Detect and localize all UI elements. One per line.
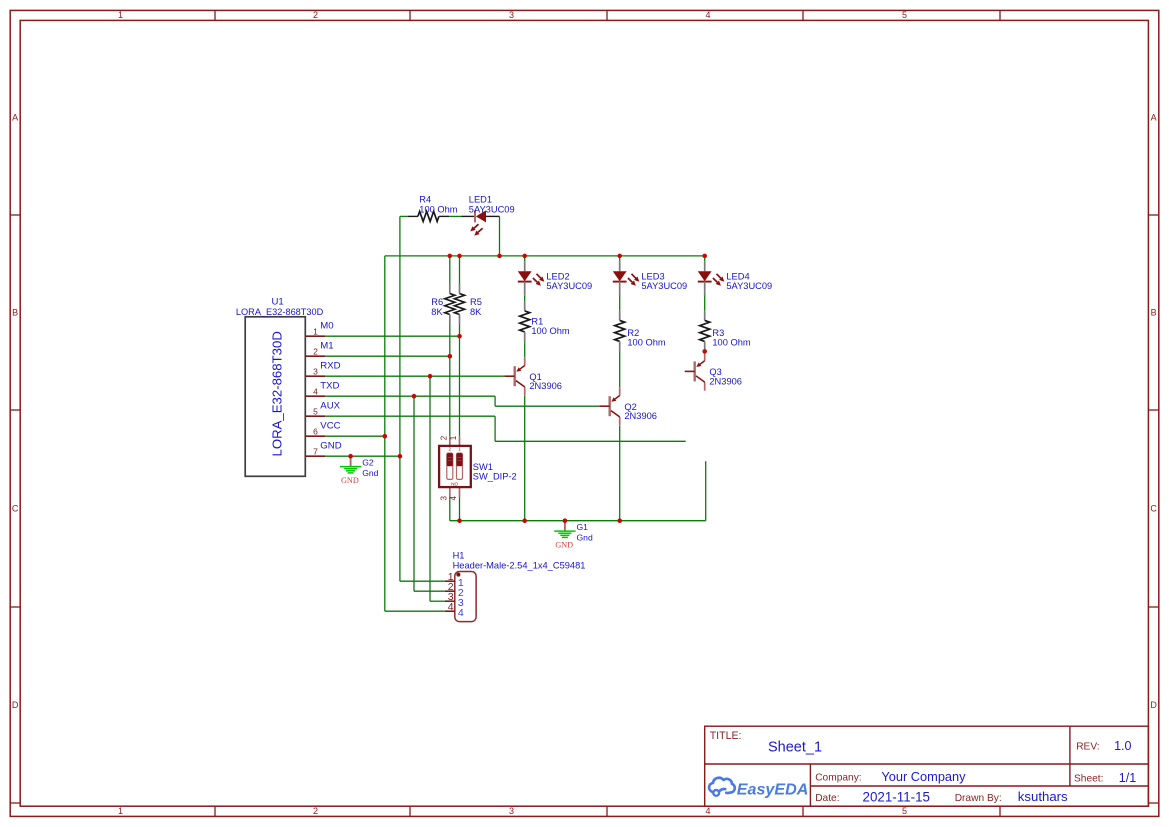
svg-text:7: 7 bbox=[313, 447, 318, 457]
transistor Q1 2N3906 bbox=[514, 366, 516, 386]
U1 pin 7 GND bbox=[305, 455, 325, 457]
svg-text:2021-11-15: 2021-11-15 bbox=[863, 790, 931, 805]
svg-text:1: 1 bbox=[118, 10, 123, 20]
svg-text:ksuthars: ksuthars bbox=[1018, 789, 1068, 804]
svg-text:5: 5 bbox=[313, 407, 318, 417]
wire LED1 cathode down to rail bbox=[499, 216, 501, 256]
resistor R4 100 Ohm bbox=[408, 215, 418, 217]
wire M0 (U1 pin1 to R5/SW1) bbox=[325, 335, 459, 337]
wire R6 column / SW1 pin2 bbox=[449, 256, 451, 284]
U1 pin 1 M0 bbox=[305, 335, 325, 337]
svg-text:2: 2 bbox=[440, 435, 449, 440]
svg-text:SW_DIP-2: SW_DIP-2 bbox=[473, 472, 517, 482]
svg-text:4: 4 bbox=[313, 387, 318, 397]
wire VCC vertical to H1 pin4 bbox=[384, 256, 386, 611]
svg-text:2N3906: 2N3906 bbox=[624, 411, 657, 421]
svg-text:3: 3 bbox=[509, 806, 514, 816]
svg-text:G2: G2 bbox=[362, 457, 374, 467]
svg-text:Q3: Q3 bbox=[709, 367, 721, 377]
junction at (399.9,456.2) bbox=[398, 454, 403, 459]
wire RXD vertical to H1 pin3 bbox=[429, 376, 431, 601]
junction at (459.5,520.7) bbox=[457, 518, 462, 523]
junction at (564.9,520.7) bbox=[563, 518, 568, 523]
svg-text:GND: GND bbox=[341, 476, 359, 485]
svg-text:2N3906: 2N3906 bbox=[529, 381, 562, 391]
svg-text:3: 3 bbox=[313, 367, 318, 377]
svg-text:3: 3 bbox=[440, 496, 449, 501]
junction at (704.7,351.4) bbox=[702, 349, 707, 354]
H1 pin 4 bbox=[445, 610, 455, 612]
svg-text:4: 4 bbox=[458, 607, 464, 619]
svg-text:2: 2 bbox=[313, 806, 318, 816]
svg-text:ON: ON bbox=[451, 482, 458, 487]
svg-text:G1: G1 bbox=[577, 522, 589, 532]
svg-text:R1: R1 bbox=[531, 317, 543, 327]
svg-text:8K: 8K bbox=[470, 307, 482, 317]
H1 pin 1 bbox=[445, 580, 455, 582]
wire TXD (U1 pin4 to Q2 base) bbox=[325, 395, 495, 397]
chip U1 LORA_E32-868T30D bbox=[245, 317, 305, 477]
junction at (449.8,356.2) bbox=[448, 354, 453, 359]
svg-text:AUX: AUX bbox=[320, 401, 340, 412]
svg-text:H1: H1 bbox=[453, 551, 465, 561]
svg-text:5AY3UC09: 5AY3UC09 bbox=[469, 204, 515, 214]
wire TXD vertical to H1 pin2 bbox=[413, 396, 415, 591]
svg-text:RXD: RXD bbox=[320, 361, 340, 372]
junction at (524.7,255.9) bbox=[522, 254, 527, 259]
svg-text:B: B bbox=[1151, 308, 1157, 318]
wire LED4 / R3 column bbox=[704, 256, 706, 261]
svg-text:5: 5 bbox=[902, 806, 907, 816]
title block bbox=[705, 726, 1149, 806]
svg-text:Drawn By:: Drawn By: bbox=[955, 793, 1002, 804]
svg-text:Header-Male-2.54_1x4_C59481: Header-Male-2.54_1x4_C59481 bbox=[453, 561, 586, 571]
wire GND rail riser right (dangling) bbox=[705, 461, 707, 521]
svg-text:M1: M1 bbox=[320, 341, 333, 352]
LED LED1 5AY3UC09 bbox=[462, 215, 475, 217]
svg-text:Sheet:: Sheet: bbox=[1074, 774, 1103, 785]
LED LED4 5AY3UC09 bbox=[704, 261, 706, 271]
EasyEDA logo bbox=[709, 778, 735, 793]
svg-text:VCC: VCC bbox=[320, 421, 340, 432]
svg-text:1: 1 bbox=[458, 447, 461, 452]
svg-text:C: C bbox=[1150, 504, 1157, 514]
svg-text:2: 2 bbox=[313, 347, 318, 357]
svg-text:5AY3UC09: 5AY3UC09 bbox=[726, 281, 772, 291]
svg-text:2N3906: 2N3906 bbox=[709, 376, 742, 386]
junction at (704.7,255.9) bbox=[702, 254, 707, 259]
svg-text:5: 5 bbox=[902, 10, 907, 20]
svg-text:3: 3 bbox=[509, 10, 514, 20]
svg-text:TXD: TXD bbox=[320, 381, 339, 392]
LED LED2 5AY3UC09 bbox=[524, 261, 526, 271]
wire AUX (U1 pin5, dangling near Q3) bbox=[325, 415, 495, 417]
svg-text:Your Company: Your Company bbox=[881, 769, 966, 784]
wire GND rail bottom bbox=[450, 520, 706, 522]
svg-text:1: 1 bbox=[449, 435, 458, 440]
junction at (449.8,255.9) bbox=[448, 254, 453, 259]
resistor R1 100 Ohm bbox=[524, 302, 526, 311]
svg-text:U1: U1 bbox=[271, 296, 283, 307]
svg-text:GND: GND bbox=[555, 540, 573, 549]
svg-text:Gnd: Gnd bbox=[577, 532, 593, 542]
svg-text:Company:: Company: bbox=[815, 773, 861, 784]
svg-text:A: A bbox=[12, 113, 18, 123]
svg-text:1: 1 bbox=[118, 806, 123, 816]
U1 pin 4 TXD bbox=[305, 395, 325, 397]
svg-text:1/1: 1/1 bbox=[1119, 771, 1136, 785]
svg-text:1.0: 1.0 bbox=[1114, 739, 1131, 753]
ground G2 Gnd bbox=[350, 456, 352, 466]
svg-text:5AY3UC09: 5AY3UC09 bbox=[641, 281, 687, 291]
svg-text:R5: R5 bbox=[470, 297, 482, 307]
wire LED2 / R1 / Q1 column bbox=[524, 256, 526, 261]
svg-text:5AY3UC09: 5AY3UC09 bbox=[546, 281, 592, 291]
junction at (499.5,255.9) bbox=[497, 254, 502, 259]
svg-text:A: A bbox=[1151, 113, 1157, 123]
svg-text:LORA_E32-868T30D: LORA_E32-868T30D bbox=[270, 331, 285, 456]
junction at (619.7,255.9) bbox=[617, 254, 622, 259]
H1 pin 3 bbox=[445, 600, 455, 602]
U1 pin 5 AUX bbox=[305, 415, 325, 417]
svg-text:100 Ohm: 100 Ohm bbox=[419, 204, 457, 214]
wire R5 column / SW1 pin1 bbox=[459, 256, 461, 284]
svg-text:4: 4 bbox=[448, 601, 454, 613]
U1 pin 6 VCC bbox=[305, 435, 325, 437]
svg-text:GND: GND bbox=[320, 441, 341, 452]
wire LED3 / R2 / Q2 column bbox=[619, 256, 621, 261]
resistor R3 100 Ohm bbox=[704, 311, 706, 321]
svg-text:D: D bbox=[1150, 700, 1157, 710]
U1 pin 2 M1 bbox=[305, 355, 325, 357]
resistor R2 100 Ohm bbox=[619, 311, 621, 321]
junction at (459.5,336.2) bbox=[457, 334, 462, 339]
svg-text:4: 4 bbox=[705, 806, 710, 816]
resistor R5 8K bbox=[459, 284, 461, 294]
svg-text:100 Ohm: 100 Ohm bbox=[712, 337, 750, 347]
header H1 Header-Male-2.54_1x4_C59481 bbox=[455, 572, 476, 622]
H1 pin 2 bbox=[445, 590, 455, 592]
svg-text:LORA_E32-868T30D: LORA_E32-868T30D bbox=[236, 307, 324, 317]
svg-text:Gnd: Gnd bbox=[362, 468, 378, 478]
svg-text:Sheet_1: Sheet_1 bbox=[768, 740, 822, 756]
junction at (414,396.2) bbox=[412, 394, 417, 399]
svg-text:D: D bbox=[12, 700, 19, 710]
svg-text:4: 4 bbox=[705, 10, 710, 20]
svg-text:6: 6 bbox=[313, 427, 318, 437]
svg-text:4: 4 bbox=[449, 496, 458, 501]
wire M1 (U1 pin2 to R6/SW1) bbox=[325, 355, 450, 357]
svg-text:100 Ohm: 100 Ohm bbox=[531, 326, 569, 336]
resistor R6 8K bbox=[449, 284, 451, 294]
svg-text:2: 2 bbox=[313, 10, 318, 20]
svg-text:LED1: LED1 bbox=[469, 194, 492, 204]
wire R4 anode side bbox=[400, 215, 408, 217]
switch SW1 SW_DIP-2 bbox=[449, 436, 451, 446]
ground G1 Gnd bbox=[564, 521, 566, 531]
junction at (350.6,456.2) bbox=[348, 454, 353, 459]
wire R4 to LED1 bbox=[449, 215, 461, 217]
svg-text:Date:: Date: bbox=[815, 793, 839, 804]
svg-text:EasyEDA: EasyEDA bbox=[737, 781, 809, 799]
svg-text:R4: R4 bbox=[419, 194, 431, 204]
U1 pin 3 RXD bbox=[305, 375, 325, 377]
wire VCC rail top bbox=[385, 255, 705, 257]
svg-text:REV:: REV: bbox=[1076, 742, 1099, 753]
svg-text:8K: 8K bbox=[431, 307, 443, 317]
svg-text:2: 2 bbox=[449, 447, 452, 452]
junction at (459.5,255.9) bbox=[457, 254, 462, 259]
junction at (384.8,436.2) bbox=[383, 434, 388, 439]
transistor Q2 2N3906 bbox=[609, 396, 611, 416]
junction at (430,376.2) bbox=[428, 374, 433, 379]
transistor Q3 2N3906 bbox=[694, 361, 696, 381]
wire GND net vertical (R4 to H1 pin1) bbox=[399, 216, 401, 581]
svg-text:C: C bbox=[12, 504, 19, 514]
wire RXD (U1 pin3 to Q1 base) bbox=[325, 375, 505, 377]
svg-text:1: 1 bbox=[313, 327, 318, 337]
LED LED3 5AY3UC09 bbox=[619, 261, 621, 271]
wire GND (U1 pin7) bbox=[325, 455, 400, 457]
wire VCC (U1 pin6) bbox=[325, 435, 385, 437]
svg-text:R6: R6 bbox=[431, 297, 443, 307]
junction at (619.7,520.7) bbox=[617, 518, 622, 523]
svg-text:B: B bbox=[12, 308, 18, 318]
svg-text:100 Ohm: 100 Ohm bbox=[627, 337, 665, 347]
svg-text:TITLE:: TITLE: bbox=[710, 730, 742, 742]
junction at (524.7,520.7) bbox=[522, 518, 527, 523]
svg-text:M0: M0 bbox=[320, 321, 333, 332]
